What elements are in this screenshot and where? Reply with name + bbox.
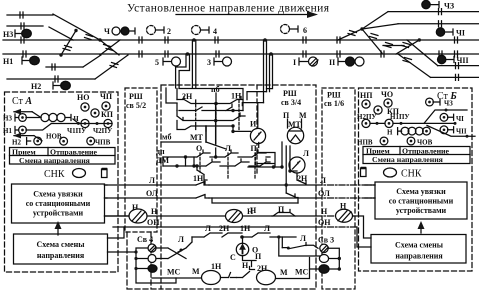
contact row 2 bbox=[177, 104, 243, 113]
right throat track line R2 bbox=[398, 21, 479, 27]
svg-text:пб: пб bbox=[211, 85, 220, 94]
svg-text:Н2: Н2 bbox=[12, 139, 21, 147]
svg-text:I: I bbox=[293, 58, 296, 67]
svg-text:ЧПВ: ЧПВ bbox=[95, 139, 111, 147]
svg-text:И: И bbox=[250, 120, 257, 129]
MIDDLE RELAY BOX dashed bbox=[161, 85, 316, 289]
svg-text:ОН: ОН bbox=[147, 218, 160, 227]
label PB bbox=[211, 85, 220, 94]
svg-text:ОЛ: ОЛ bbox=[318, 189, 330, 198]
PB feed wire bbox=[214, 93, 218, 105]
track lamps chain bbox=[41, 113, 80, 123]
battery icon B bbox=[361, 168, 367, 177]
vertical links contact block bbox=[163, 148, 216, 166]
labels DP DM bbox=[156, 147, 170, 165]
1N label and contact bbox=[211, 262, 237, 278]
arrow between boxes A bbox=[55, 221, 62, 235]
crossover diagonal B bbox=[49, 27, 73, 40]
linkage dash I contact bbox=[255, 153, 257, 165]
right crossover to main2 bbox=[362, 29, 382, 53]
crossover X main1-main2 bbox=[100, 40, 120, 55]
svg-text:ЧЗ: ЧЗ bbox=[444, 100, 453, 108]
lamp KP bbox=[91, 109, 114, 119]
meter I bbox=[250, 120, 266, 144]
change box B bbox=[371, 235, 466, 264]
svg-text:ОН: ОН bbox=[318, 218, 331, 227]
top wire of lamp circuit bbox=[192, 233, 296, 239]
2N contact to L bus bbox=[297, 173, 308, 184]
RSh sv 5/2 box bbox=[125, 88, 157, 232]
svg-text:Ч: Ч bbox=[104, 27, 110, 36]
jog wires to I meter bbox=[242, 92, 266, 128]
svg-text:Л: Л bbox=[205, 224, 211, 233]
relay N right bbox=[336, 202, 353, 223]
B throat branch to ChII track bbox=[427, 126, 475, 138]
svg-text:ЧОВ: ЧОВ bbox=[417, 139, 433, 147]
svg-text:С: С bbox=[230, 253, 236, 262]
P contact on N bus bbox=[250, 205, 295, 216]
Sv3 label bbox=[318, 236, 334, 245]
svg-text:Н: Н bbox=[321, 207, 328, 216]
wire OL bus bbox=[105, 197, 376, 199]
labels Ch1PU Ch2PU bbox=[67, 127, 112, 135]
wire N to change box B bbox=[354, 216, 372, 238]
signal H1 bbox=[3, 56, 39, 66]
lamp ChOV bbox=[407, 137, 432, 146]
svg-text:Ст А: Ст А bbox=[12, 96, 32, 107]
St B label bbox=[437, 91, 457, 102]
cable elbow top bbox=[177, 89, 243, 111]
lamp ChO bbox=[381, 90, 393, 107]
right line ChII track bbox=[438, 63, 479, 69]
svg-text:Ч1ПУ: Ч1ПУ bbox=[67, 127, 86, 135]
svg-text:Л: Л bbox=[225, 144, 231, 153]
relay N left bbox=[129, 203, 147, 223]
signal Ch (two heads) bbox=[104, 27, 135, 36]
main track line 2 bbox=[3, 53, 479, 55]
svg-text:ЧI: ЧI bbox=[456, 115, 464, 123]
direction arrow bbox=[176, 11, 318, 18]
row N chain B bbox=[387, 127, 430, 136]
svg-text:Смена направления: Смена направления bbox=[372, 155, 444, 164]
MS wire bbox=[152, 268, 201, 279]
RSh sv 3/4 label bbox=[281, 89, 301, 107]
svg-text:ЧП: ЧП bbox=[100, 92, 113, 101]
contact row DM bbox=[163, 159, 270, 168]
joint bbox=[20, 12, 23, 18]
labels O L P bbox=[196, 144, 258, 153]
svg-text:Н: Н bbox=[242, 261, 249, 270]
labels C O P bbox=[230, 246, 262, 263]
linkage dashes lower bbox=[200, 153, 255, 180]
svg-text:Схема увязки: Схема увязки bbox=[33, 190, 83, 199]
Sv4 lamps bbox=[148, 244, 156, 252]
motor MT bbox=[287, 119, 303, 144]
relay 2N bbox=[257, 264, 276, 285]
svg-text:св 3/4: св 3/4 bbox=[281, 98, 301, 107]
wire from change box A to ON bbox=[108, 227, 125, 238]
contact row 1 bbox=[177, 97, 243, 104]
lamp NO bbox=[77, 93, 89, 111]
inner dashed divider bbox=[256, 85, 258, 176]
1N contact to L bus bbox=[193, 164, 207, 185]
joint bbox=[21, 23, 24, 29]
St A label bbox=[12, 96, 32, 107]
svg-text:Н: Н bbox=[151, 207, 158, 216]
contact labels top wire bbox=[205, 224, 270, 233]
right diagonal D3 bbox=[398, 54, 431, 77]
relay N middle bbox=[226, 207, 255, 223]
Sv4 lamp white bbox=[148, 255, 156, 263]
svg-text:О: О bbox=[196, 144, 202, 153]
svg-text:НПВ: НПВ bbox=[357, 139, 373, 147]
wire lamp O down bbox=[243, 256, 257, 267]
wire ON to change box B bbox=[357, 227, 371, 247]
svg-text:М: М bbox=[299, 111, 307, 120]
diagonal from y79 line bbox=[95, 55, 128, 79]
svg-text:КП: КП bbox=[101, 110, 114, 119]
joints on main line 2 bbox=[23, 51, 458, 57]
crossover diagonal A bbox=[53, 14, 102, 42]
insulation slashes left bbox=[63, 35, 113, 51]
svg-text:Схема смены: Схема смены bbox=[37, 240, 86, 249]
svg-text:Л: Л bbox=[264, 224, 270, 233]
SNK label B bbox=[401, 169, 422, 180]
wire y167 bbox=[248, 165, 284, 168]
svg-text:устройствами: устройствами bbox=[33, 209, 84, 218]
panel row H2 bbox=[12, 137, 42, 146]
lamps N2PU N1PU row bbox=[362, 119, 457, 127]
contact row 3 bbox=[177, 111, 245, 123]
signal H3 bbox=[3, 29, 31, 39]
wire to meter I bbox=[231, 126, 250, 133]
diagonal from y67 line bbox=[83, 55, 101, 67]
cable drop pair A bbox=[176, 52, 190, 88]
right diagonal D1 bbox=[396, 38, 421, 54]
signal II bbox=[329, 57, 364, 67]
wire ON bus bbox=[113, 226, 357, 228]
wire from change box A right bbox=[108, 250, 138, 253]
Sv4 lamp red bbox=[148, 265, 157, 273]
wires from interface box A bbox=[105, 185, 130, 216]
svg-text:Св 3: Св 3 bbox=[318, 236, 334, 245]
change box A bbox=[14, 234, 108, 264]
right ladder diagonal bbox=[338, 12, 398, 40]
svg-text:РШ: РШ bbox=[283, 89, 297, 98]
STATION A PANEL dashed box bbox=[5, 92, 119, 272]
signal 3 bbox=[207, 57, 232, 67]
RSh 3/4 P M motor bbox=[283, 111, 307, 120]
svg-text:МС: МС bbox=[167, 268, 181, 277]
svg-text:5: 5 bbox=[155, 58, 159, 67]
right line bottom bbox=[431, 74, 479, 80]
svg-text:6: 6 bbox=[303, 26, 307, 35]
lamp KP B bbox=[374, 106, 400, 116]
table Priem/Otpravlenie B bbox=[363, 147, 470, 164]
wire L bus bbox=[105, 184, 376, 186]
bus labels right bbox=[318, 176, 331, 227]
row ChII B bbox=[440, 126, 467, 135]
labels N2PU N1PU bbox=[357, 113, 410, 121]
signal I bbox=[293, 57, 318, 67]
panel row H3 bbox=[3, 114, 41, 123]
contact row O L P bbox=[163, 150, 270, 159]
track line left y79 bbox=[7, 76, 95, 82]
linkage dashes bbox=[196, 100, 239, 130]
crossover branch to main2 bbox=[59, 31, 76, 57]
table text B bbox=[366, 147, 450, 165]
svg-text:П: П bbox=[255, 252, 262, 261]
svg-text:П: П bbox=[283, 111, 290, 120]
svg-text:Св 4: Св 4 bbox=[137, 235, 153, 244]
Sv3 lamp red bbox=[319, 265, 329, 273]
Sv4 left common wire bbox=[134, 248, 176, 283]
svg-text:Схема увязки: Схема увязки bbox=[396, 187, 446, 196]
title text bbox=[127, 3, 330, 15]
svg-text:Н: Н bbox=[387, 129, 393, 137]
OL contact bbox=[286, 193, 298, 203]
track line left y67 bbox=[46, 64, 83, 70]
svg-text:Л: Л bbox=[320, 176, 326, 185]
svg-text:устройствами: устройствами bbox=[396, 206, 447, 215]
RSh sv 1/6 box bbox=[322, 88, 355, 289]
contact row 4 bbox=[177, 121, 235, 132]
SNK indicator A bbox=[44, 169, 65, 180]
svg-text:Н1: Н1 bbox=[3, 127, 12, 135]
svg-text:МТ: МТ bbox=[190, 133, 204, 142]
svg-text:ЧЗ: ЧЗ bbox=[444, 2, 454, 11]
svg-text:НО: НО bbox=[77, 93, 89, 102]
svg-text:Н3: Н3 bbox=[3, 115, 12, 123]
right stub segment bbox=[383, 45, 404, 47]
svg-text:дп: дп bbox=[156, 147, 165, 156]
cable drop pair B bbox=[192, 38, 196, 88]
svg-text:Ч2ПУ: Ч2ПУ bbox=[93, 127, 112, 135]
right diagonal D2 bbox=[407, 40, 438, 66]
svg-text:ЧI: ЧI bbox=[456, 29, 465, 38]
Sv3 lamp white bbox=[319, 255, 328, 263]
MB MT labels bbox=[162, 133, 204, 143]
transfer contact N bbox=[237, 261, 255, 278]
svg-text:ОЛ: ОЛ bbox=[146, 189, 158, 198]
signal ChII bbox=[438, 55, 469, 65]
svg-text:св 5/2: св 5/2 bbox=[126, 101, 146, 110]
svg-text:НП: НП bbox=[360, 91, 373, 100]
bus labels left bbox=[146, 176, 160, 227]
labels 2N 1N bbox=[182, 92, 242, 102]
lamp NP bbox=[360, 91, 373, 108]
svg-text:2Н: 2Н bbox=[219, 224, 230, 233]
MT contact bbox=[206, 104, 226, 150]
row ChI B bbox=[440, 113, 464, 122]
svg-text:ЧII: ЧII bbox=[456, 127, 467, 135]
svg-text:Л: Л bbox=[300, 234, 306, 243]
signal ChZ bbox=[422, 0, 454, 10]
svg-text:Л: Л bbox=[149, 176, 155, 185]
svg-text:1Н: 1Н bbox=[240, 224, 251, 233]
relay M bbox=[192, 267, 221, 285]
svg-text:СНК: СНК bbox=[44, 169, 65, 180]
wire N bus bbox=[105, 215, 354, 217]
ammeter L bbox=[289, 149, 309, 173]
verticals to contacts bbox=[282, 142, 297, 193]
STATION B PANEL dashed box bbox=[359, 88, 473, 271]
Sv3 wiring bbox=[310, 248, 341, 270]
battery icon A bbox=[102, 169, 108, 178]
Sv3 transfer contact L bbox=[282, 234, 318, 250]
interface box A bbox=[12, 184, 105, 223]
cable drop right pair D bbox=[267, 52, 273, 91]
row ChZ B bbox=[426, 98, 454, 107]
wire after 2N bbox=[276, 258, 310, 279]
svg-text:II: II bbox=[329, 58, 335, 67]
signal ChI bbox=[436, 28, 465, 38]
contact 1N in L bus bbox=[196, 182, 209, 186]
svg-text:3: 3 bbox=[207, 58, 211, 67]
I meter lower contact P bbox=[257, 143, 275, 168]
svg-text:Н1ПУ: Н1ПУ bbox=[390, 113, 410, 121]
track line top-left siding bbox=[7, 14, 53, 16]
signal 4 dashed bbox=[192, 26, 218, 37]
signal 2 dashed bbox=[147, 26, 172, 37]
right throat track line R1 bbox=[388, 9, 479, 15]
svg-text:со станционными: со станционными bbox=[26, 199, 91, 208]
svg-text:св 1/6: св 1/6 bbox=[324, 99, 344, 108]
lamps Ch1PU Ch2PU bbox=[51, 119, 112, 128]
svg-text:ЧII: ЧII bbox=[457, 56, 469, 65]
svg-text:ЧО: ЧО bbox=[381, 90, 393, 99]
table Priem/Otpravlenie A bbox=[10, 148, 116, 165]
lamp O with arrow bbox=[236, 237, 248, 256]
B throat branch to ChZ track bbox=[424, 109, 467, 124]
joints on main line 1 bbox=[21, 37, 458, 43]
svg-text:Н: Н bbox=[250, 206, 257, 215]
main track line 1 bbox=[3, 39, 479, 41]
wire branch y203 bbox=[212, 198, 298, 203]
svg-text:Л: Л bbox=[303, 149, 309, 158]
svg-text:мб: мб bbox=[162, 133, 171, 142]
svg-text:Смена направления: Смена направления bbox=[19, 156, 91, 165]
lamp ChP bbox=[100, 92, 113, 110]
contact in OL bus bbox=[196, 195, 209, 199]
lamp ChPV bbox=[87, 137, 111, 146]
svg-text:Н2: Н2 bbox=[31, 82, 41, 91]
svg-text:М: М bbox=[192, 267, 200, 276]
svg-text:направления: направления bbox=[37, 251, 85, 260]
svg-text:РШ: РШ bbox=[129, 92, 143, 101]
SNK indicator B bbox=[384, 168, 397, 177]
svg-text:П: П bbox=[251, 144, 258, 153]
svg-text:4: 4 bbox=[213, 27, 217, 36]
svg-text:МС: МС bbox=[295, 268, 309, 277]
signal 5 bbox=[155, 57, 181, 67]
left cable verticals from station A top bbox=[166, 88, 177, 103]
lamp NOV bbox=[46, 133, 68, 146]
svg-text:Установленное направление движ: Установленное направление движения bbox=[127, 3, 330, 15]
MB bar bbox=[161, 141, 201, 143]
svg-text:СНК: СНК bbox=[401, 169, 422, 180]
vertical return wire bbox=[277, 235, 320, 256]
lamp NPV bbox=[357, 137, 388, 146]
svg-text:1Н: 1Н bbox=[193, 174, 204, 183]
svg-text:Н3: Н3 bbox=[3, 30, 13, 39]
interface box B bbox=[375, 182, 467, 219]
table text A bbox=[12, 148, 98, 165]
svg-text:со станционными: со станционными bbox=[389, 197, 454, 206]
direction arrow left small top bbox=[13, 109, 41, 118]
SNK lamp A bbox=[73, 169, 86, 178]
arrow between boxes B bbox=[418, 221, 425, 233]
insulation slashes right bbox=[348, 31, 412, 63]
track line H3 siding bbox=[7, 25, 43, 27]
svg-text:направления: направления bbox=[395, 252, 443, 261]
svg-text:Л: Л bbox=[178, 235, 184, 244]
svg-text:Н1: Н1 bbox=[3, 57, 13, 66]
svg-text:Схема смены: Схема смены bbox=[395, 241, 444, 250]
svg-text:1Н: 1Н bbox=[211, 262, 222, 271]
Sv4 label bbox=[137, 235, 153, 244]
Sv4 transfer contact L bbox=[156, 235, 192, 259]
L OL buses into interface box B bbox=[365, 185, 375, 198]
bottom-left extension dashed bbox=[127, 232, 161, 289]
panel row H1 bbox=[3, 124, 51, 136]
direction arrow left small mid bbox=[13, 133, 42, 141]
signal H2 bbox=[31, 81, 70, 91]
svg-text:М: М bbox=[280, 268, 288, 277]
svg-text:2: 2 bbox=[167, 27, 171, 36]
cable drop right pair C bbox=[263, 38, 267, 102]
Sv3 lamps bbox=[320, 244, 328, 253]
signal 6 dashed bbox=[281, 25, 308, 36]
